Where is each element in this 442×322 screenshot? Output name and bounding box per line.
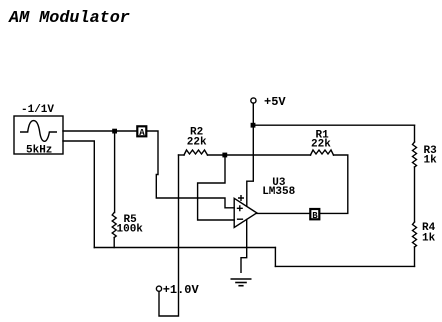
svg-text:LM358: LM358 (262, 186, 295, 198)
right rail vertical (414, 125, 416, 142)
wire R4 to bottom rail (414, 247, 416, 266)
node B box (310, 209, 319, 219)
svg-text:1k: 1k (422, 233, 436, 245)
resistor R3 zigzag (413, 142, 417, 167)
resistor R5 zigzag (112, 213, 116, 238)
node A box (137, 126, 146, 136)
resistor R1 right lead and corner to output (320, 155, 348, 213)
svg-text:22k: 22k (311, 139, 331, 151)
op-amp inverting minus mark (238, 218, 243, 220)
op-amp V+ plus mark (239, 196, 244, 201)
resistor R5 lead from junction (114, 131, 116, 213)
resistor R2 left corner lead (179, 154, 185, 156)
resistor R4 zigzag (413, 222, 417, 247)
source V1 box (14, 116, 63, 154)
svg-text:-1/1V: -1/1V (21, 104, 54, 116)
ground bar 1 (231, 278, 250, 280)
svg-text:A: A (139, 128, 145, 138)
ground bar 3 (239, 285, 243, 287)
resistor R1 zigzag (311, 150, 334, 155)
bottom rail step (274, 248, 276, 267)
vertical wire R2 left to +1.0V terminal (159, 155, 179, 316)
resistor R2 zigzag (184, 150, 208, 155)
svg-text:AM Modulator: AM Modulator (8, 9, 130, 28)
op-amp output wire to node B (257, 212, 310, 214)
terminal circle +1.0V (156, 286, 161, 291)
junction dot right of R2 (222, 153, 227, 158)
op-amp noninverting plus mark (238, 206, 243, 211)
svg-text:5kHz: 5kHz (26, 145, 52, 157)
svg-text:22k: 22k (187, 137, 207, 149)
resistor R2 right lead to junction (208, 154, 311, 156)
bottom rail left segment (94, 247, 275, 249)
wire R2 junction down to inverting input (198, 155, 235, 220)
svg-text:+1.0V: +1.0V (163, 283, 200, 297)
svg-text:B: B (312, 211, 318, 221)
op-amp U3 triangle (234, 198, 257, 227)
junction dot +5V (251, 123, 256, 128)
wire node A to plus input path (147, 131, 234, 208)
wire source bottom pin (63, 141, 94, 248)
svg-text:+5V: +5V (264, 95, 286, 109)
+5V terminal circle (251, 98, 256, 103)
ground bar 2 (236, 282, 246, 284)
svg-text:100k: 100k (117, 224, 144, 236)
wire source top pin to node A box (63, 130, 137, 132)
source V1 sine symbol (21, 121, 57, 142)
wire op-amp V- pin to ground (241, 220, 247, 273)
junction dot at source top wire (112, 129, 117, 134)
svg-text:1k: 1k (424, 155, 438, 167)
bottom rail right segment (275, 265, 414, 267)
wire between R3 and R4 (414, 167, 416, 222)
resistor R5 bottom lead (113, 238, 115, 248)
wire +5V rail to right (253, 124, 414, 126)
wire +5V down to op-amp V+ pin (247, 103, 254, 206)
